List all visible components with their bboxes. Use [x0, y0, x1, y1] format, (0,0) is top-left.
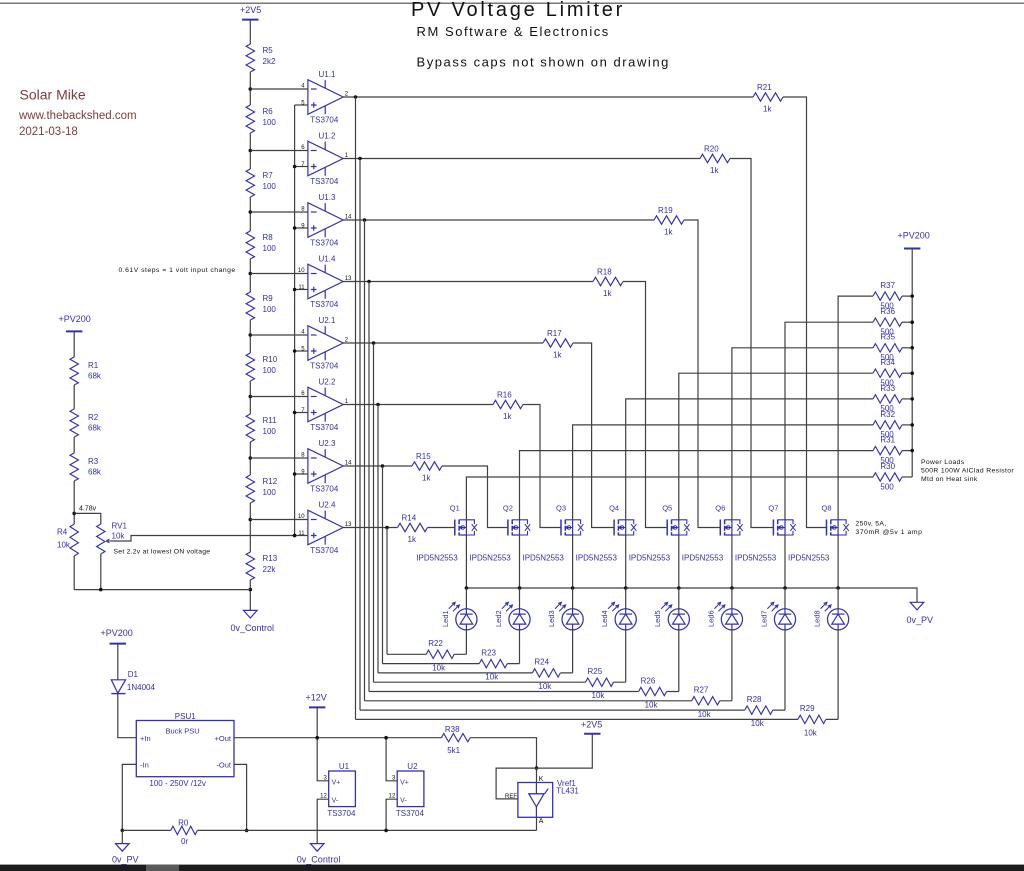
svg-text:68k: 68k: [88, 424, 102, 433]
svg-text:D1: D1: [128, 670, 139, 679]
wire: R37 leads: [873, 295, 912, 297]
transistor Q2 (IPD5N2553): [469, 504, 530, 563]
svg-text:R20: R20: [704, 144, 719, 153]
wire: Q1 drain to R30: [466, 477, 873, 520]
junction: rail tap U2.3+: [293, 472, 297, 476]
svg-text:Led1: Led1: [441, 610, 450, 627]
svg-text:100 - 250V /12v: 100 - 250V /12v: [149, 779, 205, 788]
junction: 4.78v node: [72, 512, 76, 516]
svg-text:Led5: Led5: [653, 610, 662, 627]
svg-text:TS3704: TS3704: [310, 362, 339, 371]
wire: U2.2 output down to R24: [377, 405, 379, 673]
junction: rail tap U2.4+: [293, 534, 297, 538]
wire: +PV200 through D1 to PSU1 +In: [118, 644, 137, 738]
svg-text:Bypass caps not shown on drawi: Bypass caps not shown on drawing: [417, 55, 670, 70]
svg-text:U1.3: U1.3: [319, 193, 336, 202]
svg-text:R13: R13: [263, 554, 278, 563]
svg-text:TS3704: TS3704: [327, 809, 356, 818]
ground 0v_PV (bus): [907, 602, 934, 625]
power +PV200 (left): [59, 314, 91, 331]
junction: wiper/rail: [293, 534, 297, 538]
svg-text:+12V: +12V: [306, 692, 327, 702]
scrollbar thumb: [146, 865, 179, 871]
transistor Q8 (IPD5N2553): [788, 504, 849, 563]
resistor R38 (5k1): [441, 725, 470, 755]
wire: U2 V+ from 12V: [386, 738, 397, 781]
op-amp U2.1 (TS3704): [301, 316, 349, 371]
wire: R27 row: [365, 700, 732, 702]
op-amp U1.1 (TS3704): [301, 70, 349, 125]
wire: Q3 drain to R32: [573, 425, 873, 520]
svg-text:10k: 10k: [751, 719, 765, 728]
junction: U2 V- at rail: [384, 829, 388, 833]
wire: rail to U2.4 pin 11 (+): [295, 535, 308, 537]
resistor R2 (68k): [70, 409, 102, 437]
junction: +12V at +Out: [315, 736, 319, 740]
svg-text:+Out: +Out: [215, 734, 232, 743]
svg-text:R23: R23: [481, 648, 496, 657]
junction: load rail at R32: [910, 423, 914, 427]
junction: bus at Q6/Led6: [730, 586, 734, 590]
svg-text:5k1: 5k1: [447, 746, 460, 755]
junction: 0v rail left: [121, 829, 125, 833]
transistor Q5 (IPD5N2553): [629, 504, 690, 563]
resistor R14 (1k): [398, 513, 428, 544]
resistor R36 (500): [873, 307, 902, 336]
diode D1 (1N4004): [111, 670, 155, 694]
svg-text:0v_PV: 0v_PV: [907, 615, 934, 625]
wire: bus to Led6 anode-cathode: [731, 588, 733, 701]
junction: U2 V+ at +Out: [384, 736, 388, 740]
svg-text:10k: 10k: [432, 663, 446, 672]
svg-text:1k: 1k: [422, 474, 431, 483]
wire: K into Vref1: [536, 768, 538, 782]
resistor R1 (68k): [70, 357, 102, 385]
junction: load rail at R31: [910, 449, 914, 453]
LED Led6: [706, 602, 742, 630]
label: 4.78v: [79, 506, 97, 513]
op-amp U2.2 (TS3704): [301, 378, 349, 433]
svg-text:10k: 10k: [592, 691, 606, 700]
svg-text:R29: R29: [800, 704, 815, 713]
svg-text:10k: 10k: [485, 673, 499, 682]
svg-text:10k: 10k: [804, 728, 818, 737]
junction: divider tap y=458: [249, 456, 253, 460]
wire: PSU1 -Out down: [234, 764, 247, 830]
junction: U2.4 output node: [385, 526, 389, 530]
junction: Vref1 K node: [535, 766, 539, 770]
junction: divider tap y=212: [249, 210, 253, 214]
svg-text:68k: 68k: [88, 372, 102, 381]
resistor R35 (500): [873, 333, 902, 362]
LED Led4: [600, 602, 636, 630]
svg-text:500: 500: [880, 328, 894, 337]
junction: divider tap y=335: [249, 333, 253, 337]
svg-text:U1.4: U1.4: [319, 255, 336, 264]
svg-text:IPD5N2553: IPD5N2553: [416, 554, 458, 563]
wire: RV1 bottom: [100, 554, 102, 590]
svg-text:10: 10: [298, 268, 305, 274]
junction: divider tap y=519.5: [249, 518, 253, 522]
wire: divider chain vertical: [249, 20, 251, 611]
svg-text:Led6: Led6: [706, 610, 715, 627]
wire: Q5 drain to R34: [679, 373, 873, 520]
svg-text:U2.2: U2.2: [319, 378, 336, 387]
junction: U2.2 output node: [376, 403, 380, 407]
wire: divider tap to U1.4 pin 10 (-): [250, 273, 308, 275]
svg-text:R28: R28: [747, 695, 762, 704]
resistor R12 (100): [246, 475, 278, 503]
junction: bus at Q7/Led7: [783, 586, 787, 590]
svg-text:1k: 1k: [603, 289, 612, 298]
wire: R30 leads: [873, 476, 912, 478]
ground 0v_Control (divider): [231, 610, 275, 633]
svg-text:U2.1: U2.1: [319, 316, 336, 325]
svg-text:R16: R16: [497, 390, 512, 399]
svg-text:22k: 22k: [263, 565, 277, 574]
junction: U1.2 output node: [358, 157, 362, 161]
junction: bus at Q3/Led3: [571, 586, 575, 590]
junction: bus at Q8/Led8: [836, 586, 840, 590]
wire: Q4 source to bus: [625, 535, 627, 588]
wire: rail to U2.1 pin 5 (+): [295, 350, 308, 352]
svg-text:100: 100: [263, 427, 277, 436]
svg-text:Solar Mike: Solar Mike: [20, 87, 86, 103]
wire: U2.3 output via R15 to Q2 gate: [343, 466, 508, 528]
svg-text:PSU1: PSU1: [175, 712, 196, 721]
ground 0v_Control (psu): [297, 844, 341, 865]
resistor R15 (1k): [412, 452, 442, 483]
power +PV200 (psu): [101, 628, 133, 644]
svg-text:Q7: Q7: [768, 504, 778, 513]
wire: Q6 drain to R35: [732, 348, 873, 520]
svg-text:Led8: Led8: [813, 610, 822, 627]
wire: R38 to Vref1 cathode: [470, 738, 536, 768]
svg-text:U1.2: U1.2: [319, 132, 336, 141]
resistor R13 (22k): [246, 552, 278, 580]
chip U2 power (TS3704): [389, 762, 425, 818]
svg-text:U2: U2: [407, 762, 418, 771]
wire: rail to U1.1 pin 5 (+): [295, 104, 308, 106]
svg-text:1k: 1k: [503, 412, 512, 421]
svg-text:R27: R27: [694, 686, 709, 695]
wire: R28 row: [360, 709, 785, 711]
wire: R25 row: [374, 681, 626, 683]
svg-text:R1: R1: [88, 361, 99, 370]
wire: PSU1 -In to 0v rail: [122, 764, 136, 830]
svg-text:1N4004: 1N4004: [127, 683, 156, 692]
junction: U1.1 output node: [354, 95, 358, 99]
wire: +12V to U1 V+: [317, 707, 329, 780]
svg-text:R11: R11: [263, 416, 278, 425]
svg-text:Led7: Led7: [759, 610, 768, 627]
resistor R33 (500): [873, 384, 902, 413]
wire: U1.1 output via R21 to Q8 gate: [343, 97, 826, 528]
junction: bus at Q1/Led1: [465, 586, 469, 590]
svg-text:IPD5N2553: IPD5N2553: [735, 554, 777, 563]
svg-text:IPD5N2553: IPD5N2553: [629, 554, 671, 563]
svg-text:Power Loads: Power Loads: [921, 459, 965, 466]
wire: U2.1 output down to R25: [373, 343, 375, 682]
svg-text:TS3704: TS3704: [310, 116, 339, 125]
wire: R32 leads: [873, 424, 912, 426]
svg-text:R12: R12: [263, 477, 278, 486]
wire: divider tap to U2.1 pin 4 (-): [250, 334, 308, 336]
svg-text:100: 100: [263, 305, 277, 314]
resistor R31 (500): [873, 436, 902, 465]
svg-text:R10: R10: [263, 355, 278, 364]
op-amp U1.4 (TS3704): [298, 255, 352, 310]
svg-text:+PV200: +PV200: [59, 314, 91, 324]
svg-text:10k: 10k: [57, 541, 71, 550]
junction: U2.3 output node: [381, 464, 385, 468]
svg-text:-In: -In: [140, 760, 149, 769]
resistor R37 (500): [873, 281, 902, 310]
wire: U2.4 output down to R22: [386, 528, 388, 655]
svg-text:Q5: Q5: [662, 504, 672, 513]
wire: Q8 drain to R37: [838, 296, 873, 520]
junction: load rail at R37: [910, 294, 914, 298]
ground 0v_PV (psu): [112, 830, 139, 864]
wire: rail to U2.2 pin 7 (+): [295, 412, 308, 414]
svg-text:www.thebackshed.com: www.thebackshed.com: [18, 110, 137, 122]
svg-text:R18: R18: [597, 267, 612, 276]
svg-text:IPD5N2553: IPD5N2553: [576, 554, 618, 563]
wire: REF feedback loop: [496, 768, 536, 799]
svg-text:10k: 10k: [112, 532, 126, 541]
top border line: [0, 2, 1024, 4]
wire: bus to Led8 anode-cathode: [837, 588, 839, 719]
junction: load rail at R34: [910, 371, 914, 375]
wire: Q7 source to bus: [784, 535, 786, 588]
junction: divider tap y=89: [249, 87, 253, 91]
potentiometer RV1 (10k): [97, 522, 128, 555]
wire: bus to Led1 anode-cathode: [465, 588, 467, 654]
wire: U2 V- to 0v rail: [386, 799, 397, 830]
svg-text:1k: 1k: [553, 351, 562, 360]
junction: bus at Q2/Led2: [518, 586, 522, 590]
wire: bus to Led5 anode-cathode: [678, 588, 680, 692]
resistor R22 (10k): [426, 639, 454, 672]
chip U1 power (TS3704): [320, 762, 356, 818]
transistor Q3 (IPD5N2553): [523, 504, 584, 563]
svg-text:0.61V steps = 1 volt input cha: 0.61V steps = 1 volt input change: [119, 267, 236, 274]
wire: R35 leads: [873, 347, 912, 349]
svg-text:TS3704: TS3704: [396, 809, 425, 818]
resistor R24 (10k): [532, 658, 560, 691]
svg-text:100: 100: [263, 366, 277, 375]
LED Led5: [653, 602, 689, 630]
svg-text:R25: R25: [588, 667, 603, 676]
op-amp U2.4 (TS3704): [298, 501, 352, 556]
svg-text:100: 100: [263, 182, 277, 191]
wire: R34 leads: [873, 372, 912, 374]
resistor R27 (10k): [692, 686, 720, 719]
svg-text:10k: 10k: [698, 710, 712, 719]
wire: Q3 source to bus: [572, 535, 574, 588]
wire: rail to U2.3 pin 9 (+): [295, 473, 308, 475]
resistor R16 (1k): [493, 390, 523, 421]
svg-text:500R 100W AlClad Resistor: 500R 100W AlClad Resistor: [921, 467, 1014, 474]
resistor R21 (1k): [753, 83, 783, 114]
LED Led2: [494, 602, 530, 630]
svg-text:10k: 10k: [538, 682, 552, 691]
junction: -Out at rail: [245, 829, 249, 833]
svg-text:V+: V+: [400, 779, 409, 786]
power +2V5 (vref): [581, 720, 602, 734]
svg-text:500: 500: [880, 482, 894, 491]
wire: U1.4 output via R18 to Q5 gate: [343, 282, 667, 528]
wire: divider tap to U1.3 pin 8 (-): [250, 211, 308, 213]
svg-text:1k: 1k: [664, 228, 673, 237]
svg-text:Led3: Led3: [547, 610, 556, 627]
svg-text:+In: +In: [140, 734, 151, 743]
op-amp U2.3 (TS3704): [301, 439, 352, 494]
svg-text:R26: R26: [641, 676, 656, 685]
wire: U2.4 output via R14 to Q1 gate: [343, 527, 455, 529]
svg-text:Q3: Q3: [556, 504, 566, 513]
resistor R28 (10k): [745, 695, 773, 728]
wire: U1.3 output via R19 to Q6 gate: [343, 220, 720, 528]
wire: non-inverting reference rail: [294, 105, 296, 536]
junction: load rail at R35: [910, 346, 914, 350]
svg-text:500: 500: [880, 456, 894, 465]
svg-text:U1: U1: [339, 762, 350, 771]
junction: bus at Q5/Led5: [677, 586, 681, 590]
junction: U1.4 output node: [367, 280, 371, 284]
svg-text:500: 500: [880, 301, 894, 310]
svg-text:Q4: Q4: [609, 504, 619, 513]
wire: RV1 wiper to rail: [111, 536, 295, 542]
wire: node to RV1 top: [74, 513, 101, 524]
wire: bottom rail R4/RV1/R13: [74, 589, 250, 591]
wire: +PV200 load rail: [911, 249, 913, 478]
junction: rail tap U1.2+: [293, 165, 297, 169]
wire: U1.1 output down to R29: [355, 97, 357, 719]
wire: Q1 source to bus: [465, 535, 467, 588]
svg-text:V-: V-: [332, 798, 339, 805]
svg-text:Q2: Q2: [503, 504, 513, 513]
svg-text:R7: R7: [263, 171, 274, 180]
wire: Q4 drain to R33: [626, 399, 873, 520]
resistor R34 (500): [873, 358, 902, 387]
wire: U2.2 output via R16 to Q3 gate: [343, 405, 561, 528]
svg-text:Led2: Led2: [494, 610, 503, 627]
svg-text:RV1: RV1: [112, 522, 128, 531]
svg-text:370mR @5v 1 amp: 370mR @5v 1 amp: [856, 529, 923, 536]
svg-text:R17: R17: [547, 329, 562, 338]
wire: Vref1 anode to rail: [536, 817, 538, 830]
svg-text:R24: R24: [534, 658, 549, 667]
transistor Q1 (IPD5N2553): [416, 504, 477, 563]
wire: K node to +2V5: [537, 734, 593, 768]
resistor R29 (10k): [798, 704, 826, 737]
svg-text:1k: 1k: [408, 535, 417, 544]
svg-text:TS3704: TS3704: [310, 300, 339, 309]
svg-text:V-: V-: [400, 798, 407, 805]
junction: rail tap U1.4+: [293, 288, 297, 292]
transistor Q6 (IPD5N2553): [682, 504, 743, 563]
wire: Q6 source to bus: [731, 535, 733, 588]
svg-text:500: 500: [880, 430, 894, 439]
resistor R5 (2k2): [246, 44, 276, 72]
svg-text:500: 500: [880, 379, 894, 388]
svg-text:0v_Control: 0v_Control: [231, 623, 275, 633]
svg-text:R19: R19: [658, 206, 673, 215]
svg-text:2021-03-18: 2021-03-18: [19, 126, 78, 138]
resistor R11 (100): [246, 414, 277, 442]
svg-text:100: 100: [263, 244, 277, 253]
wire: R24 row: [378, 672, 573, 674]
svg-text:100: 100: [263, 118, 277, 127]
junction: rail tap U1.3+: [293, 226, 297, 230]
svg-text:TS3704: TS3704: [310, 177, 339, 186]
svg-text:R0: R0: [178, 819, 189, 828]
svg-text:+2V5: +2V5: [581, 720, 602, 730]
resistor R17 (1k): [543, 329, 573, 360]
svg-text:0r: 0r: [181, 837, 188, 846]
svg-text:68k: 68k: [88, 468, 102, 477]
transistor Q4 (IPD5N2553): [576, 504, 637, 563]
junction: U1.3 output node: [363, 218, 367, 222]
junction: load rail at R33: [910, 397, 914, 401]
resistor R23 (10k): [479, 648, 507, 681]
svg-text:R9: R9: [263, 294, 274, 303]
LED Led7: [759, 602, 795, 630]
resistor R8 (100): [246, 231, 276, 259]
resistor R3 (68k): [70, 453, 102, 481]
svg-text:IPD5N2553: IPD5N2553: [682, 554, 724, 563]
resistor R32 (500): [873, 410, 902, 439]
svg-text:A: A: [539, 818, 544, 825]
svg-text:Q1: Q1: [450, 504, 460, 513]
svg-text:Q8: Q8: [822, 504, 832, 513]
resistor R10 (100): [246, 353, 278, 381]
junction: load rail at R36: [910, 320, 914, 324]
svg-text:TS3704: TS3704: [310, 546, 339, 555]
svg-text:500: 500: [880, 353, 894, 362]
wire: bus to Led7 anode-cathode: [784, 588, 786, 710]
svg-text:4.78v: 4.78v: [79, 506, 97, 513]
svg-text:U2.4: U2.4: [319, 501, 336, 510]
op-amp U1.2 (TS3704): [301, 132, 349, 187]
LED Led8: [813, 602, 849, 630]
transistor Q7 (IPD5N2553): [735, 504, 796, 563]
power +12V: [306, 692, 327, 707]
junction: divider tap y=150.5: [249, 149, 253, 153]
wire: 0v rail: [122, 829, 536, 831]
svg-text:Mtd on Heat sink: Mtd on Heat sink: [921, 476, 978, 483]
svg-text:R4: R4: [57, 528, 68, 537]
svg-text:RM Software & Electronics: RM Software & Electronics: [417, 24, 610, 39]
wire: U1 V- to 0v_Control: [317, 799, 329, 843]
svg-text:10: 10: [298, 514, 305, 520]
resistor R6 (100): [246, 105, 276, 133]
resistor R18 (1k): [593, 267, 623, 298]
svg-text:100: 100: [263, 488, 277, 497]
wire: U1.2 output down to R28: [359, 159, 361, 711]
module PSU1 (Buck PSU): [136, 712, 234, 788]
svg-text:1k: 1k: [763, 105, 772, 114]
wire: divider tap to U1.1 pin 4 (-): [250, 88, 308, 90]
wire: R23 row: [383, 663, 520, 665]
svg-text:R3: R3: [88, 457, 99, 466]
junction: rail tap U2.2+: [293, 411, 297, 415]
svg-text:R37: R37: [880, 281, 895, 290]
wire: bus to Led2 anode-cathode: [519, 588, 521, 664]
wire: R33 leads: [873, 398, 912, 400]
svg-text:Q6: Q6: [715, 504, 725, 513]
